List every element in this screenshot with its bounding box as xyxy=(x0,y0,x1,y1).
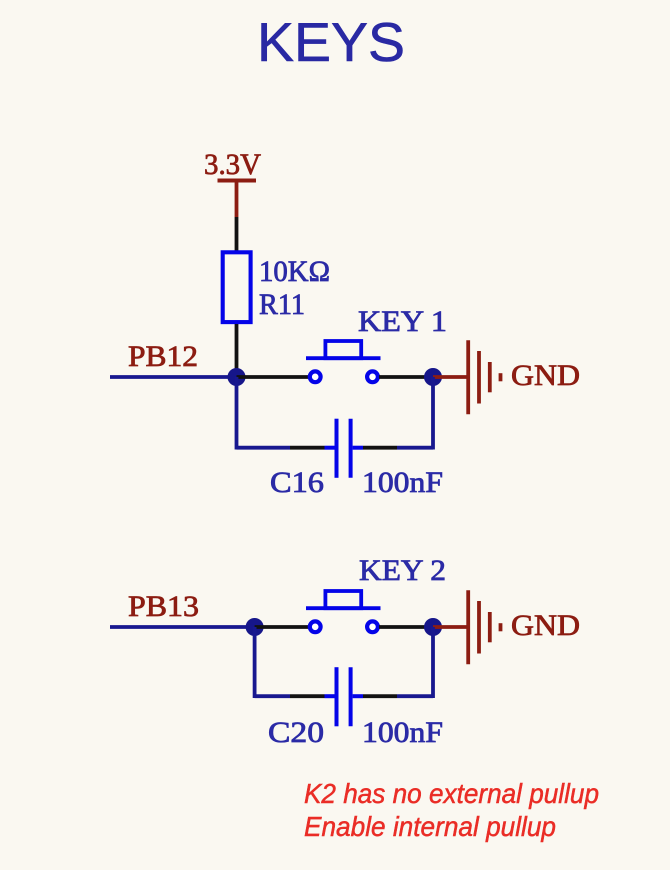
switch KEY2 right terminal xyxy=(367,621,378,632)
svg-text:10KΩ: 10KΩ xyxy=(259,255,330,288)
svg-text:R11: R11 xyxy=(259,288,305,321)
wire node PB13 to switch KEY2 xyxy=(255,625,308,629)
junction node GND side key1 xyxy=(424,368,442,386)
switch KEY1 actuator bar xyxy=(306,356,381,360)
wire bottom left navy C16 xyxy=(237,446,291,450)
wire right riser of C16 loop xyxy=(431,377,435,450)
wire switch KEY1 to GND node xyxy=(379,375,433,379)
wire node to GND symbol key2 xyxy=(433,625,467,629)
switch KEY2 actuator bar xyxy=(306,606,381,610)
svg-text:C16: C16 xyxy=(270,466,324,499)
wire node to GND symbol xyxy=(433,375,467,379)
svg-text:Enable internal pullup: Enable internal pullup xyxy=(304,811,556,842)
capacitor C16 xyxy=(325,419,364,478)
ground symbol key1 xyxy=(468,340,500,414)
switch KEY1 left terminal xyxy=(310,371,321,382)
power 3.3V bar symbol xyxy=(218,179,257,183)
wire node PB12 to switch S1 xyxy=(237,375,309,379)
svg-text:GND: GND xyxy=(511,359,580,392)
switch KEY1 right terminal xyxy=(367,371,378,382)
svg-text:KEY 2: KEY 2 xyxy=(359,554,446,587)
switch KEY2 left terminal xyxy=(310,621,321,632)
svg-text:100nF: 100nF xyxy=(362,466,443,499)
wire PB13 xyxy=(110,625,255,629)
svg-text:PB12: PB12 xyxy=(128,340,198,373)
power 3.3V pin xyxy=(235,181,239,218)
svg-text:K2 has no external pullup: K2 has no external pullup xyxy=(304,778,599,809)
wire left drop of C20 loop xyxy=(253,627,257,698)
switch KEY1 button cap xyxy=(325,341,361,358)
wire bottom right navy C16 xyxy=(397,446,433,450)
svg-text:PB13: PB13 xyxy=(128,590,199,623)
capacitor C20 xyxy=(325,667,364,726)
junction node PB12 xyxy=(228,368,246,386)
svg-text:KEY 1: KEY 1 xyxy=(358,305,447,338)
wire bottom right black from C16 xyxy=(363,446,397,450)
resistor R11 body xyxy=(223,252,251,322)
junction node PB13 xyxy=(246,618,264,636)
wire resistor R11 to node PB12 xyxy=(235,324,239,377)
wire bottom left black to C16 xyxy=(290,446,325,450)
wire switch KEY2 to GND node xyxy=(379,625,433,629)
wire PB12 xyxy=(110,375,237,379)
svg-text:100nF: 100nF xyxy=(362,716,443,749)
svg-text:KEYS: KEYS xyxy=(257,11,405,73)
junction node GND side key2 xyxy=(424,618,442,636)
wire bottom left black to C20 xyxy=(290,694,325,698)
wire bottom right black from C20 xyxy=(363,694,397,698)
ground symbol key2 xyxy=(468,590,500,664)
wire right riser of C20 loop xyxy=(431,627,435,698)
wire left drop of C16 loop xyxy=(235,377,239,450)
svg-text:C20: C20 xyxy=(268,716,324,749)
wire bottom left navy C20 xyxy=(255,694,290,698)
svg-text:GND: GND xyxy=(511,609,580,642)
switch KEY2 button cap xyxy=(325,591,361,608)
wire power to resistor R11 xyxy=(235,217,239,252)
wire bottom right navy C20 xyxy=(397,694,433,698)
svg-text:3.3V: 3.3V xyxy=(204,148,261,181)
